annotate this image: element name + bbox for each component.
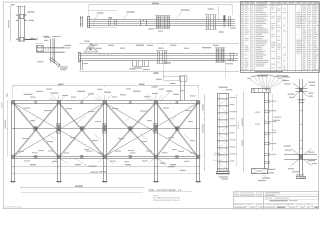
detail D2 plate dim ticks: [36, 43, 43, 45]
frame X-center gussets: [34, 127, 38, 131]
frame post 3 foundation stub: [103, 159, 105, 182]
BOM table outer border: [241, 2, 320, 73]
title block revision row line: [233, 194, 318, 196]
frame bottom chord text smudges: [18, 151, 24, 152]
frame post splice boxes at mid height: [57, 124, 61, 134]
column C top leader texts: [283, 76, 290, 77]
title block revision verticals: [238, 191, 240, 197]
detail D2 scale label: [30, 38, 33, 40]
detail D2 brace diagonal: [51, 58, 61, 66]
detail D1 vertical dimension line: [10, 6, 12, 41]
frame bottom chord bay-center gussets: [34, 155, 37, 158]
beam B2 right dim riser: [225, 59, 227, 78]
frame brace leader lines: [30, 117, 38, 124]
frame post 2 foundation stub: [57, 159, 59, 182]
beam B1 below-beam texts: [148, 28, 154, 29]
beam B1 mid dim riser: [218, 6, 220, 21]
column C shaft battens: [299, 99, 302, 101]
column B base leaders and texts: [262, 174, 268, 179]
column C bottom connection horizontal bar: [284, 154, 317, 156]
beam B2 bottom flange lines: [79, 58, 238, 60]
frame top chord bay-center gussets: [34, 101, 37, 104]
frame below-chord leaders bay2: [76, 159, 87, 166]
beam B1 leader text 1: [123, 13, 128, 19]
beam B2 right end cluster: [216, 48, 226, 62]
frame view title underline: [149, 191, 193, 193]
column A cell diagonals: [220, 100, 226, 105]
column B outer dimension line: [236, 95, 238, 165]
beam B1 under-beam dim line left: [87, 27, 117, 29]
svg-text:NOTES:: NOTES:: [153, 195, 159, 197]
detail D1 bolts lower row: [16, 20, 17, 21]
detail D2 beam lines: [36, 47, 65, 49]
column A base plate: [217, 172, 230, 174]
column B top plate section: [252, 89, 271, 93]
title block main vertical divider: [263, 191, 265, 208]
beam B1 right end texts: [230, 27, 236, 28]
column A body: [218, 94, 229, 172]
column C top connection horizontal bar: [295, 88, 307, 90]
frame vertical post 2: [57, 101, 59, 159]
beam B1 dimension text: [152, 3, 159, 4]
column A top labels: [219, 87, 228, 88]
title block bottom row 2 texts: [234, 207, 246, 208]
frame bottom chord: [12, 156, 199, 158]
title block revision row 1 texts: [235, 192, 238, 195]
frame post 1 foundation stub: [11, 159, 13, 182]
title block drawing title texts: [269, 200, 287, 201]
detail D1 splice plate: [20, 15, 24, 19]
BOM table total row: [241, 70, 320, 72]
beam B2 gusset extra marks: [86, 47, 89, 50]
frame top joint gussets: [11, 100, 15, 104]
frame long X-brace bays 3-4: [105, 103, 197, 156]
beam B1 leader text 2: [176, 11, 182, 19]
beam B1 break symbol: [93, 19, 95, 26]
detail D2 top leader texts: [43, 36, 49, 37]
between columns label: [276, 75, 288, 76]
detail D2 note text block: [60, 65, 67, 68]
frame top leader texts: [24, 94, 33, 95]
title block outer box: [234, 192, 319, 209]
beam B2 gusset triangle: [84, 44, 98, 52]
beam B1 top flange lines: [87, 19, 235, 21]
frame post 4 foundation stub: [154, 159, 156, 182]
column B left dimension line: [243, 92, 245, 172]
frame post top risers above chord: [58, 95, 60, 101]
frame post 4 base plate: [153, 181, 158, 183]
frame left rotated dim text 2: [5, 120, 6, 129]
detail D1 top end ticks: [17, 6, 26, 8]
column B battens: [265, 101, 270, 103]
frame overall dimension line top: [13, 85, 199, 87]
detail D1 column flange lines: [18, 6, 20, 42]
frame vertical post 1: [11, 101, 13, 159]
beam B2 flange bolt dots: [99, 53, 102, 56]
column C bottom leader texts: [284, 145, 291, 146]
frame mid strut: [12, 128, 199, 130]
beam B2 lower dimension line: [80, 71, 238, 73]
beam B1 left end connection plate: [80, 16, 82, 27]
detail D2 beam bolts: [45, 48, 48, 51]
frame vertical post 3: [103, 101, 105, 159]
frame left rotated dim text: [6, 94, 8, 97]
frame lower dimension line 2: [12, 173, 199, 175]
beam B2 under-beam stiffener cluster: [132, 61, 134, 66]
frame post 2 base plate: [56, 181, 61, 183]
left margin tiny text: [1, 102, 2, 108]
beam B1 overall dimension line: [89, 4, 232, 6]
beam B1 stiffener cluster right: [206, 15, 208, 29]
beam B1 bottom flange lines: [87, 23, 235, 25]
svg-text:SIDE - COLUMN FRAME - 1:5: SIDE - COLUMN FRAME - 1:5: [149, 189, 182, 192]
detail D2 bottom left text: [37, 61, 44, 62]
beam B1 second dim line left: [89, 10, 117, 12]
title block label texts: [265, 198, 272, 199]
beam B2 left support post: [80, 61, 82, 70]
column C top gusset blob: [299, 88, 302, 92]
frame top diagonal leader: [81, 92, 93, 101]
BOM table header text smudges: [241, 2, 244, 3]
beam B2 left end plate: [79, 53, 81, 62]
detail D1 leader text right upper: [26, 12, 29, 15]
column C top diagonal stubs: [293, 83, 300, 88]
column C bottom gusset blob: [299, 155, 303, 160]
detail D1 bottom bolts: [16, 39, 17, 40]
title block bottom verticals: [245, 203, 247, 209]
beam B1 left leader text: [95, 14, 98, 19]
detail D1 bottom heavy leader: [26, 39, 36, 41]
frame vertical post 4: [154, 101, 156, 159]
column A left leader lines: [213, 155, 222, 157]
column B top leader burst: [250, 80, 266, 91]
detail D2 extra top smudges: [44, 37, 50, 38]
beam B1 leader text 3: [208, 8, 214, 9]
column A right leader texts: [228, 97, 229, 99]
caption under table: [257, 75, 267, 77]
beam B1 left dim riser: [88, 5, 90, 17]
beam B2 top flange lines: [79, 53, 238, 55]
frame joint leader bursts: [51, 94, 59, 102]
title block left row lines: [233, 203, 263, 205]
beam B2 right end verticals: [230, 52, 232, 61]
detail D2 base plate square: [37, 46, 44, 52]
detail D2 plate bolts: [37, 46, 38, 47]
beam B2 mid dim riser: [163, 62, 165, 76]
frame lower dimension line 1: [12, 166, 199, 168]
BOM table cell text smudges: [241, 4, 243, 7]
frame bottom joint gussets: [11, 155, 15, 159]
frame corner stub column detail: [180, 76, 182, 101]
column B shaft: [264, 92, 266, 168]
frame overall bottom dimension lines: [21, 187, 143, 189]
detail D1 bottom splice plate: [20, 38, 24, 42]
title block revision row 2 texts: [235, 194, 238, 197]
frame post 3 base plate: [102, 181, 107, 183]
detail D2 column verticals: [50, 39, 52, 63]
detail D2 right leader texts: [60, 46, 64, 49]
beam B1 mid splice cluster: [156, 16, 170, 28]
beam B1 stiffener group 1: [108, 20, 110, 26]
column C base: [297, 177, 306, 179]
beam B1 right end plate: [223, 15, 225, 21]
frame post 5 base plate: [196, 181, 201, 183]
frame bay X-braces: [14, 103, 59, 156]
frame post 5 foundation stub: [196, 159, 198, 182]
column B right dim texts: [273, 117, 281, 118]
column C shaft: [299, 96, 301, 155]
frame below-chord leaders bay3: [158, 159, 166, 165]
column C bottom diagonal stubs: [291, 148, 299, 154]
title block right row lines: [264, 199, 319, 201]
detail D1 rotated dim text: [8, 20, 9, 28]
svg-text:C:\PW\S-0917.dwg: C:\PW\S-0917.dwg: [4, 207, 21, 209]
column B burst texts: [247, 78, 252, 79]
column B right leader texts: [268, 101, 270, 103]
beam B2 dim texts above: [92, 45, 98, 46]
BOM table column lines: [243, 2, 245, 73]
BOM table header underline: [241, 4, 320, 6]
column B left text blobs: [255, 112, 260, 113]
beam B2 upper dimension line: [80, 43, 238, 45]
beam B2 mid splice cluster: [157, 51, 159, 64]
frame corner stub texts: [156, 79, 162, 80]
frame post 1 base plate: [10, 181, 15, 183]
detail D1 leader text right lower: [26, 19, 29, 21]
column A rungs: [217, 98, 228, 100]
column A base texts: [219, 176, 228, 177]
beam B1 stiffener group 2: [140, 20, 142, 26]
detail D1 top label: [11, 4, 14, 5]
column C top shaft stub: [299, 79, 301, 96]
BOM table body with row lines: [241, 4, 320, 70]
beam B1 right dim riser: [232, 5, 234, 15]
frame interior leader smudges: [24, 108, 30, 109]
column B right dimension line: [272, 95, 274, 150]
frame left vertical dimension line: [7, 101, 9, 156]
frame long X-brace bays 1-2: [14, 103, 104, 156]
column B base plate: [252, 169, 268, 174]
detail D1 bolts upper row: [16, 15, 17, 16]
beam B2 extra dim texts above: [96, 48, 102, 49]
frame vertical post 5: [196, 101, 198, 159]
column C bottom shaft crossing: [299, 155, 301, 177]
title block bottom row 1 texts: [234, 204, 244, 205]
column A dimension line: [204, 94, 206, 171]
frame top chord: [12, 100, 199, 102]
